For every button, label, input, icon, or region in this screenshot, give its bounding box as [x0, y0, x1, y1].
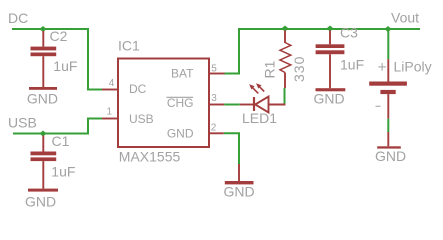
wire DC rail	[12, 29, 102, 90]
ground (C3)	[316, 88, 346, 91]
svg-text:5: 5	[211, 64, 217, 75]
junction dot on DC net	[39, 26, 46, 32]
svg-text:GND: GND	[375, 148, 406, 164]
junction dot at battery top	[384, 26, 391, 32]
svg-text:GND: GND	[167, 127, 194, 141]
capacitor C2	[31, 31, 57, 87]
svg-text:4: 4	[109, 78, 115, 89]
junction dot at C3 top	[326, 26, 333, 32]
svg-text:LiPoly: LiPoly	[394, 59, 432, 75]
svg-text:GND: GND	[25, 194, 56, 210]
svg-text:2: 2	[211, 122, 217, 133]
svg-text:Vout: Vout	[391, 10, 419, 26]
pin 3 lead	[209, 104, 224, 106]
plus sign	[378, 63, 386, 71]
svg-text:IC1: IC1	[118, 38, 140, 54]
ground (C2)	[29, 87, 57, 90]
svg-text:GND: GND	[314, 91, 345, 107]
pin 4 lead	[102, 89, 118, 91]
svg-text:1uF: 1uF	[51, 164, 75, 180]
wire pin2 GND net	[224, 133, 239, 164]
wire battery bottom	[387, 119, 389, 132]
svg-text:R1: R1	[262, 60, 278, 78]
capacitor C1	[31, 136, 57, 189]
battery B1 LiPoly	[369, 59, 407, 118]
pin 2 lead	[209, 132, 224, 134]
svg-text:330: 330	[291, 56, 307, 82]
svg-text:GND: GND	[224, 184, 255, 200]
wire BAT to top rail	[225, 29, 421, 74]
op-amp IC1 MAX1555 body	[118, 59, 209, 148]
ground (C1)	[28, 189, 58, 192]
junction dot at R1 top	[281, 26, 288, 32]
svg-text:C1: C1	[52, 133, 70, 149]
minus sign	[376, 105, 381, 107]
svg-text:MAX1555: MAX1555	[119, 149, 181, 165]
resistor R1	[280, 31, 291, 89]
svg-text:LED1: LED1	[242, 110, 277, 126]
svg-text:1uF: 1uF	[53, 58, 77, 74]
ground (battery)	[377, 132, 401, 149]
svg-text:DC: DC	[129, 82, 147, 96]
svg-text:3: 3	[211, 93, 217, 104]
capacitor C3	[316, 31, 345, 89]
pin 5 lead	[209, 73, 225, 75]
svg-text:1: 1	[107, 107, 113, 118]
svg-text:CHG: CHG	[167, 96, 194, 110]
svg-text:C2: C2	[50, 28, 68, 44]
junction dot on USB net	[39, 131, 46, 137]
ground (pin 2)	[225, 164, 254, 184]
svg-text:C3: C3	[340, 25, 358, 41]
LED LED1	[240, 83, 285, 112]
wire R1 bottom to LED anode	[284, 88, 286, 104]
wire CHG pin to LED cathode	[224, 104, 240, 106]
wire battery top	[387, 29, 389, 59]
svg-text:USB: USB	[129, 112, 154, 126]
wire USB rail	[13, 119, 102, 134]
svg-text:1uF: 1uF	[340, 57, 364, 73]
svg-text:USB: USB	[8, 115, 37, 131]
pin 1 lead	[102, 118, 118, 120]
svg-text:GND: GND	[27, 91, 58, 107]
svg-text:BAT: BAT	[171, 67, 194, 81]
svg-text:DC: DC	[8, 10, 28, 26]
